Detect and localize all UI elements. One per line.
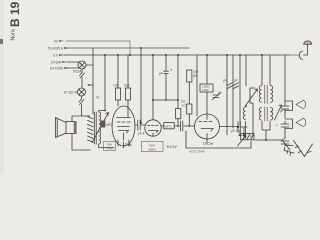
svg-text:LM73: LM73 (165, 124, 172, 128)
svg-text:µF: µF (280, 109, 284, 113)
svg-text:U4 FLW9: U4 FLW9 (50, 66, 63, 70)
svg-text:µF 0,1: µF 0,1 (231, 129, 240, 133)
svg-text:L: L (250, 94, 252, 98)
svg-text:UW: UW (124, 84, 129, 88)
svg-text:9/12A: 9/12A (73, 70, 82, 74)
svg-text:89: 89 (193, 74, 197, 78)
svg-text:J.0022: J.0022 (202, 85, 210, 89)
svg-text:V4(1): V4(1) (106, 146, 113, 150)
svg-text:9A/1C 0,2A: 9A/1C 0,2A (189, 150, 204, 154)
svg-text:MF3: MF3 (107, 123, 114, 127)
svg-text:K7.2(0,4): K7.2(0,4) (64, 91, 77, 95)
svg-text:(8A): (8A) (149, 143, 155, 147)
svg-text:A81: A81 (107, 143, 113, 147)
svg-text:Nora: Nora (11, 29, 17, 40)
svg-text:µF: µF (159, 72, 163, 76)
svg-text:ACH1: ACH1 (202, 142, 213, 147)
svg-text:ACH1: ACH1 (165, 145, 176, 150)
svg-text:0.002: 0.002 (202, 88, 209, 92)
svg-text:µF: µF (282, 137, 286, 141)
svg-text:µF 4: µF 4 (138, 132, 145, 136)
svg-text:V4/00: V4/00 (148, 148, 156, 152)
svg-text:AL2: AL2 (124, 143, 132, 148)
svg-text:µF: µF (250, 134, 254, 138)
svg-text:C4 DW: C4 DW (51, 60, 61, 64)
svg-text:L: L (276, 123, 278, 127)
svg-text:7S.002/9 A: 7S.002/9 A (47, 46, 63, 50)
svg-text:µF: µF (223, 79, 227, 83)
svg-text:30: 30 (218, 91, 222, 95)
svg-text:µF: µF (234, 79, 238, 83)
svg-text:0,1: 0,1 (182, 103, 187, 107)
svg-text:4: 4 (170, 68, 172, 72)
svg-text:30: 30 (96, 95, 100, 99)
svg-text:UW: UW (114, 84, 119, 88)
svg-text:B 19: B 19 (8, 1, 22, 27)
